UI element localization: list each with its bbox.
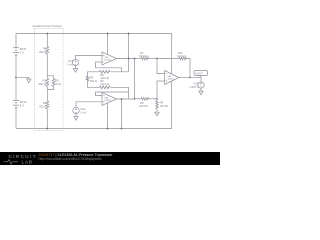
op-amp OA2 bbox=[102, 93, 117, 106]
wire bottom rail bbox=[16, 128, 172, 130]
resistor R3 bbox=[52, 78, 61, 86]
wire bridge rail lower bbox=[46, 86, 48, 100]
wire top rail bbox=[16, 33, 172, 35]
wire parallel branch top bbox=[47, 76, 53, 79]
wire left rail upper bbox=[15, 34, 17, 48]
wire R9 to ground bbox=[156, 109, 158, 113]
wire OA3 minus to R10 bbox=[157, 58, 179, 60]
wire OA2 output to bottom rail riser bbox=[121, 99, 123, 129]
svg-text:350 Ω: 350 Ω bbox=[39, 50, 46, 54]
node junction cross link bottom bbox=[134, 98, 136, 100]
wire VG1 to ground bbox=[75, 66, 77, 69]
resistor R6 feedback bbox=[100, 79, 111, 89]
wire OA1 power stub bbox=[107, 34, 109, 55]
svg-text:LM324: LM324 bbox=[167, 79, 174, 81]
wire OA2 power stub bbox=[107, 103, 109, 128]
footer bar bbox=[0, 152, 220, 165]
svg-text:LM324: LM324 bbox=[104, 60, 111, 62]
wire left rail lower bbox=[15, 108, 17, 129]
ground below VS1 bbox=[199, 91, 203, 95]
node junction OA2 riser bottom bbox=[121, 128, 123, 130]
wire R8 to OA3 plus node bbox=[148, 98, 158, 100]
svg-text:R7: R7 bbox=[140, 51, 144, 55]
svg-text:100 Ω: 100 Ω bbox=[90, 79, 97, 83]
wire RG top to R5 row bbox=[88, 72, 100, 76]
node junction output riser top bbox=[128, 33, 130, 35]
wire RG bottom to R6 row bbox=[88, 81, 100, 88]
wire bridge rail to bottom bbox=[46, 109, 48, 129]
wire OA2 minus input link bbox=[96, 92, 129, 96]
svg-text:5 V: 5 V bbox=[20, 51, 24, 55]
wire difference amp top row bbox=[135, 58, 141, 60]
svg-text:LAB: LAB bbox=[22, 160, 33, 165]
svg-text:100 kΩ: 100 kΩ bbox=[160, 104, 169, 108]
svg-text:R3: R3 bbox=[55, 79, 59, 83]
svg-text:100 kΩ: 100 kΩ bbox=[100, 82, 109, 86]
svg-text:VS1: VS1 bbox=[193, 82, 199, 86]
wire OA3 minus riser bbox=[157, 59, 165, 74]
svg-text:3 kΩ: 3 kΩ bbox=[55, 82, 61, 86]
wire OA3 output bbox=[179, 76, 201, 78]
wire parallel branch bottom bbox=[47, 86, 53, 89]
dashed enclosure Simulated Pressure Transducer bbox=[35, 29, 64, 131]
svg-text:OA2: OA2 bbox=[104, 97, 109, 100]
node junction OA2 output bbox=[121, 98, 123, 100]
battery BAT1 bbox=[13, 47, 27, 55]
svg-text:350 Ω: 350 Ω bbox=[39, 82, 46, 86]
svg-text:350 Ω: 350 Ω bbox=[39, 104, 46, 108]
svg-text:5 V: 5 V bbox=[20, 103, 24, 107]
ground G1 bbox=[27, 79, 31, 83]
wire OA3 plus riser bbox=[157, 81, 165, 99]
ground below VG2 bbox=[74, 117, 78, 121]
node junction cross link top bbox=[134, 58, 136, 60]
wire VG2 to OA2 +in bbox=[76, 102, 102, 108]
wire bridge rail mid bbox=[46, 54, 48, 78]
svg-text:VOUT: VOUT bbox=[195, 72, 203, 76]
svg-text:VG2: VG2 bbox=[80, 107, 86, 111]
node junction OA3 output feedback bbox=[189, 76, 191, 78]
wire VG2 to ground bbox=[75, 114, 77, 117]
ground below VG1 bbox=[73, 69, 77, 73]
wire OA2 output bbox=[117, 98, 135, 100]
resistor RG bbox=[86, 76, 97, 84]
svg-text:R10: R10 bbox=[178, 51, 183, 55]
CircuitLab logo bbox=[0, 152, 40, 165]
resistor R4 bbox=[39, 101, 49, 109]
svg-text:LM324: LM324 bbox=[104, 100, 111, 102]
wire R5 to OA1 output riser bbox=[110, 71, 128, 73]
svg-text:1 mV: 1 mV bbox=[80, 111, 86, 115]
resistor R5 feedback bbox=[100, 70, 111, 80]
footer text bbox=[39, 153, 113, 161]
op-amp OA1 bbox=[102, 52, 117, 65]
node junction OA3 plus bbox=[156, 98, 158, 100]
ground below R9 bbox=[155, 112, 159, 116]
svg-text:100 kΩ: 100 kΩ bbox=[139, 104, 148, 108]
svg-text:RG: RG bbox=[90, 76, 94, 80]
op-amp OA3 bbox=[165, 71, 179, 85]
wire cross link riser bbox=[134, 59, 136, 99]
wire R10 to output feedback riser bbox=[185, 59, 190, 78]
node junction bridge bottom bbox=[46, 128, 48, 130]
resistor R7 bbox=[139, 51, 149, 60]
wire R9 top lead bbox=[156, 99, 158, 101]
wire OA3 negative supply riser bbox=[171, 81, 173, 129]
node junction OA1 output bbox=[128, 58, 130, 60]
resistor R8 bbox=[139, 98, 149, 109]
svg-text:Simulated Pressure Transducer: Simulated Pressure Transducer bbox=[33, 24, 63, 28]
svg-text:OA3: OA3 bbox=[167, 75, 172, 78]
wire OA3 positive supply riser bbox=[171, 34, 173, 75]
voltage source VG1 bbox=[67, 59, 79, 67]
svg-text:1 mV: 1 mV bbox=[67, 63, 73, 67]
wire OA1 output to top rail riser bbox=[128, 34, 130, 72]
resistor R1 bbox=[39, 46, 49, 54]
resistor R2 bbox=[39, 78, 49, 86]
battery BAT2 bbox=[13, 100, 27, 108]
wire left rail mid bbox=[15, 55, 17, 101]
wire difference amp bottom row bbox=[135, 98, 141, 100]
node junction OA2 power on bottom rail bbox=[107, 128, 109, 130]
resistor R9 bbox=[156, 101, 168, 109]
svg-text:1.225 V: 1.225 V bbox=[189, 85, 198, 89]
svg-text:CIRCUIT: CIRCUIT bbox=[9, 154, 37, 159]
voltmeter VS1 bbox=[189, 77, 204, 89]
wire to ground G1 bbox=[16, 77, 29, 79]
node junction bridge top bbox=[46, 33, 48, 35]
resistor R10 feedback bbox=[177, 51, 187, 60]
svg-text:100 kΩ: 100 kΩ bbox=[139, 54, 148, 58]
svg-text:OA1: OA1 bbox=[104, 56, 109, 59]
wire OA1 output bbox=[117, 58, 135, 60]
node junction OA1 power on top rail bbox=[107, 33, 109, 35]
svg-text:R1: R1 bbox=[43, 46, 47, 50]
net flag VOUT bbox=[194, 71, 208, 78]
wire R6 to riser bbox=[110, 87, 128, 99]
wire bridge rail upper bbox=[46, 34, 48, 47]
wire VS1 to ground bbox=[200, 88, 202, 91]
svg-text:100 kΩ: 100 kΩ bbox=[177, 54, 186, 58]
wire VG1 to OA1 +in bbox=[76, 56, 103, 60]
svg-text:R2: R2 bbox=[42, 79, 46, 83]
node junction left-ground tap bbox=[15, 76, 17, 78]
wire OA1 minus input link bbox=[96, 62, 122, 72]
svg-text:R4: R4 bbox=[43, 101, 47, 105]
svg-text:VG1: VG1 bbox=[68, 59, 74, 63]
wire R7 to OA3 minus node bbox=[148, 58, 158, 60]
voltage source VG2 bbox=[73, 107, 87, 115]
svg-text:R9: R9 bbox=[160, 101, 164, 105]
node junction OA3 minus bbox=[156, 58, 158, 60]
